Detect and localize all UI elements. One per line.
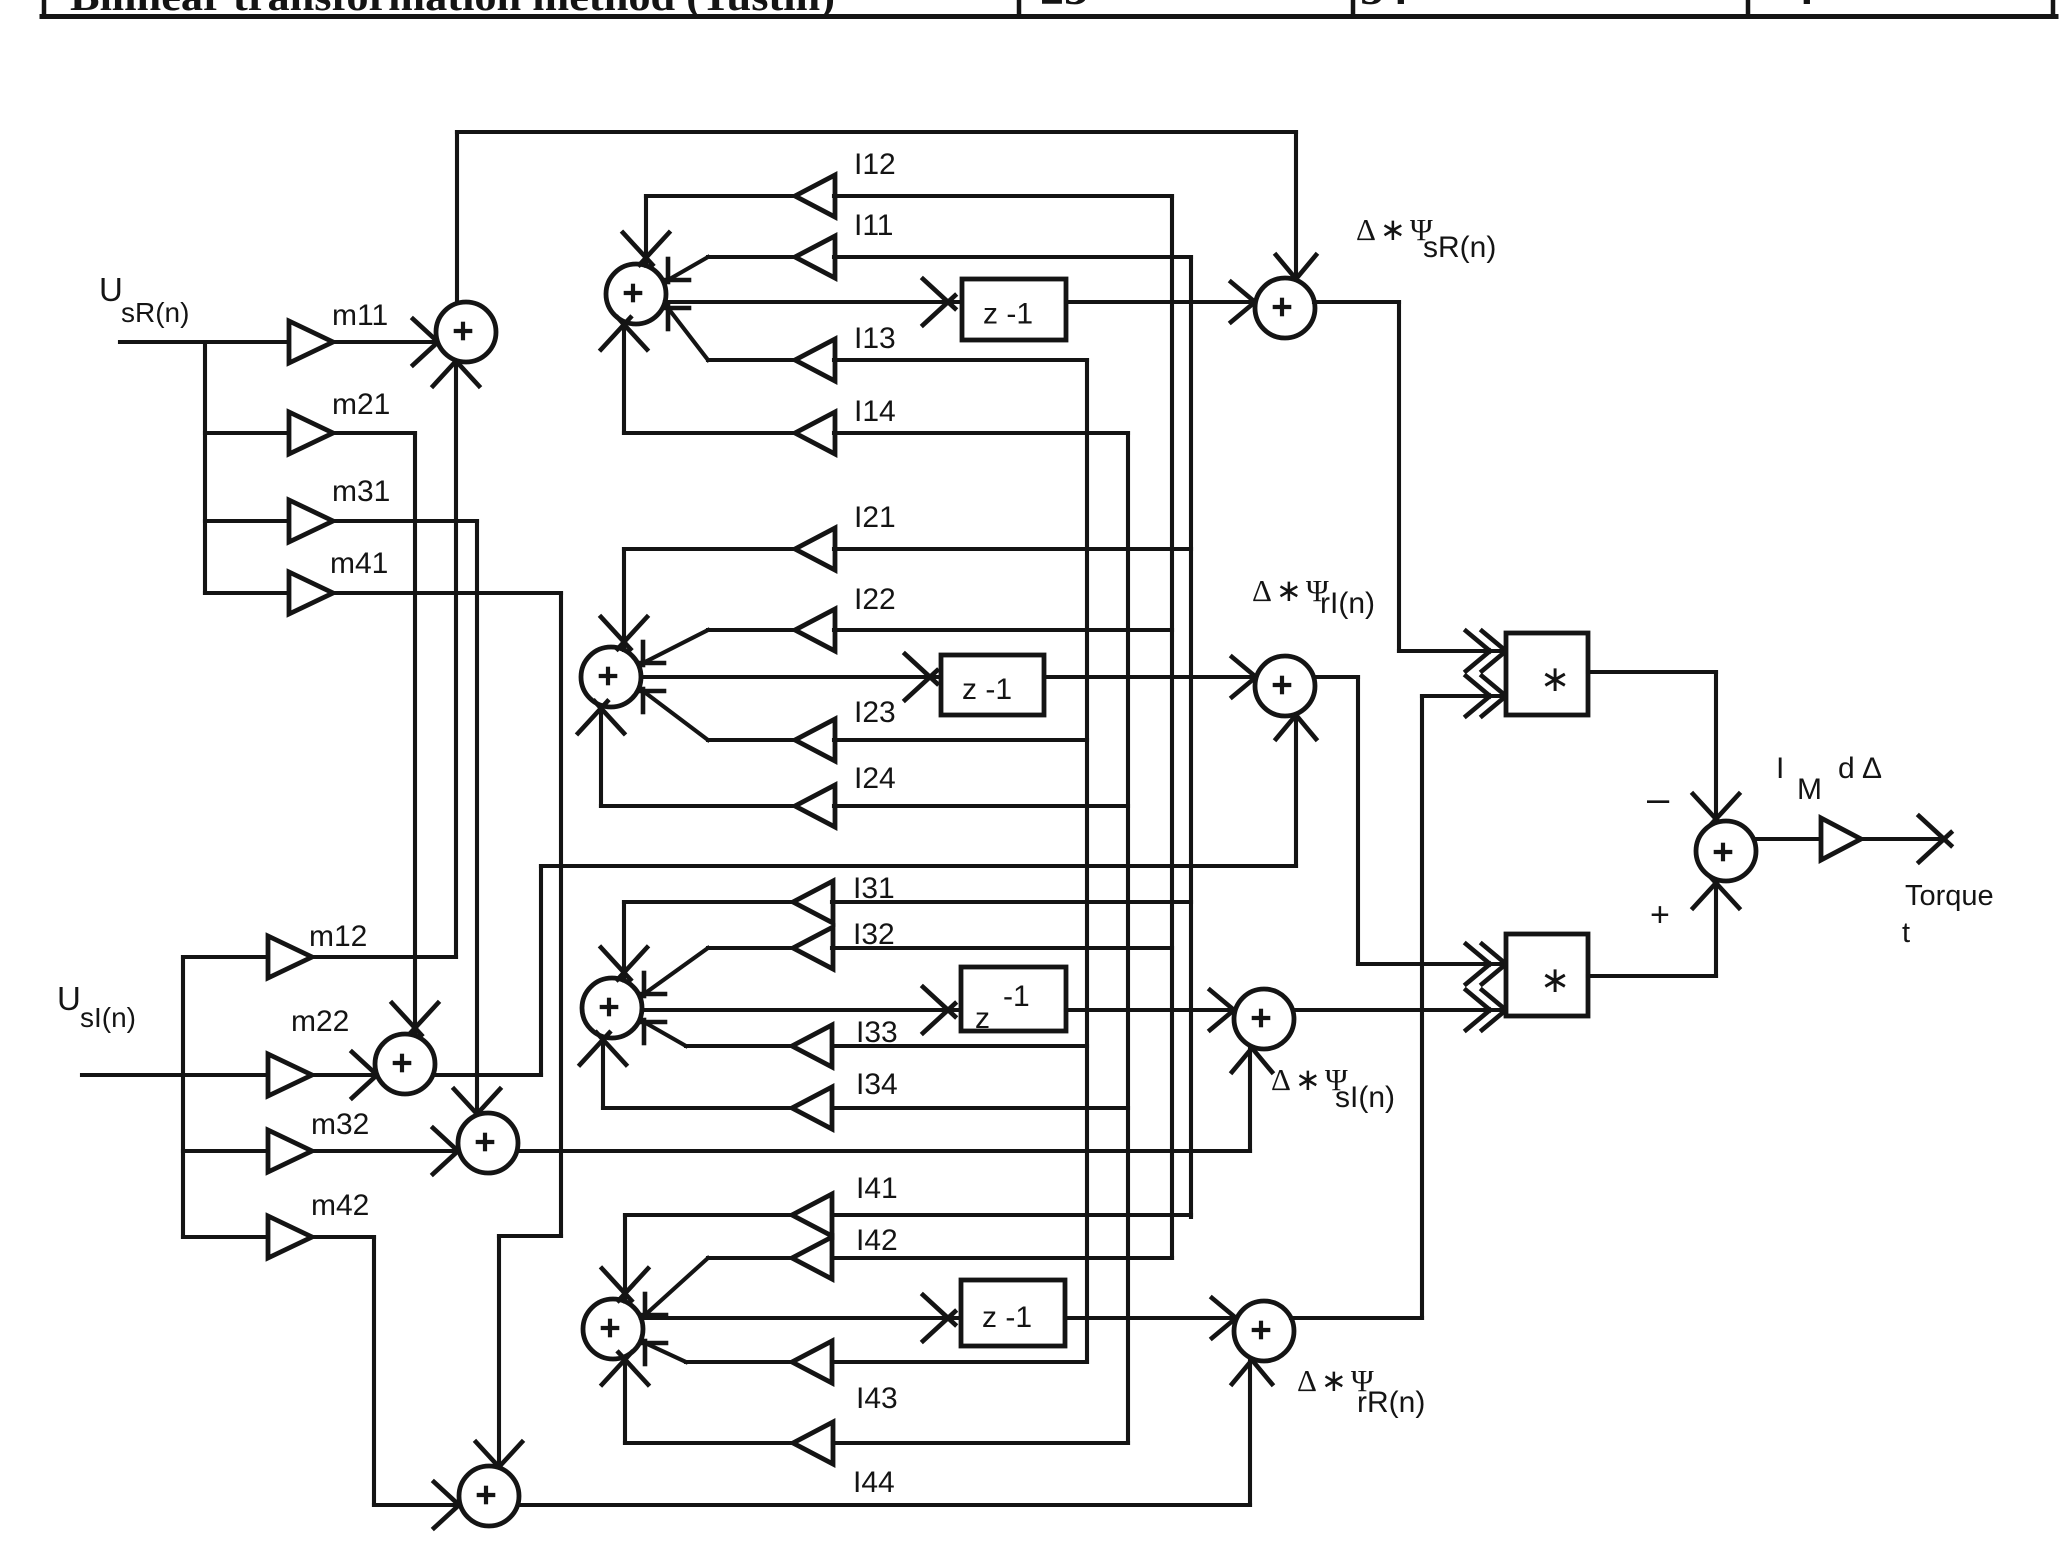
label I M d Delta [1776, 752, 1882, 806]
wire I43 to SC4 [643, 1341, 792, 1364]
wire U_sR to m41 [205, 591, 289, 595]
svg-text:m42: m42 [311, 1189, 369, 1222]
wire U_sI branch vertical [181, 957, 185, 1237]
wire Z4 output to D4 [1065, 1298, 1236, 1338]
gain I13 [795, 322, 896, 381]
svg-text:rI(n): rI(n) [1320, 587, 1375, 620]
svg-text:sR(n): sR(n) [121, 297, 189, 328]
svg-text:I12: I12 [854, 148, 896, 181]
svg-text:23: 23 [1040, 0, 1088, 15]
svg-text:I42: I42 [856, 1224, 898, 1257]
svg-text:rR(n): rR(n) [1357, 1386, 1425, 1419]
wire I44 input [833, 1441, 1128, 1445]
wire I33 to SC3 [642, 1020, 793, 1046]
table column border 2 [1351, 0, 1356, 16]
wire U_sI to m42 [183, 1235, 268, 1239]
svg-text:I41: I41 [856, 1172, 898, 1205]
gain IM dDelta [1821, 818, 1861, 860]
gain I12 [795, 148, 896, 217]
wire Z2 output to D2 [1044, 657, 1256, 697]
wire I22 to SC2 [641, 630, 795, 665]
svg-text:I11: I11 [854, 209, 893, 242]
gain m41 [289, 547, 388, 614]
wire SC2 to delay Z2 [641, 654, 941, 700]
svg-text:∗: ∗ [1540, 959, 1570, 1000]
wire Z1 output to D1 [1066, 282, 1255, 322]
gain I43 [792, 1341, 898, 1415]
wire D3 to multiplier X2 [1293, 990, 1506, 1030]
svg-text:I24: I24 [854, 762, 896, 795]
wire U_sI to m32 [183, 1149, 268, 1153]
wire I23 input [834, 738, 1087, 742]
svg-text:z -1: z -1 [962, 673, 1012, 706]
wire I41 input [832, 1213, 1191, 1217]
wire U_sR input [120, 340, 289, 344]
svg-text:z: z [975, 1002, 990, 1035]
table left border [42, 0, 47, 16]
svg-text:U: U [57, 980, 81, 1017]
wire m32 to summer S3 [312, 1128, 465, 1174]
wire S2 output to D2 [433, 715, 1316, 1075]
multiplier X1 [1506, 633, 1588, 715]
gain I32 [793, 918, 895, 969]
wire X2 to final summer [1588, 876, 1739, 976]
wire I13 to SC1 [666, 306, 795, 360]
delay Z2 [941, 655, 1044, 715]
multiplier X2 [1506, 934, 1588, 1016]
svg-text:d: d [1838, 752, 1855, 785]
label Torque t [1902, 880, 1994, 949]
wire I12 to SC1 [666, 257, 795, 282]
svg-text:m32: m32 [311, 1108, 369, 1141]
wire m42 to summer S4 [312, 1237, 466, 1528]
wire I34 input [832, 1106, 1128, 1110]
delay Z1 [962, 279, 1066, 340]
svg-text:+: + [1650, 896, 1670, 934]
wire I14 input [834, 431, 1128, 435]
wire I21 input [834, 547, 1191, 551]
delay Z3 [961, 967, 1066, 1035]
wire m12 to summer S1 [312, 354, 479, 957]
table cell text Bilinear transformation method (Tustin) [70, 0, 835, 19]
svg-text:4: 4 [1790, 0, 1814, 15]
wire m22 to summer S2 [312, 1052, 384, 1098]
gain I44 [793, 1422, 895, 1499]
table cell text 4 [1790, 0, 1814, 15]
svg-text:m31: m31 [332, 475, 390, 508]
svg-text:∗: ∗ [1540, 658, 1570, 699]
wire I24 input [834, 804, 1128, 808]
label Delta-Psi rI(n) [1252, 573, 1375, 620]
wire D4 to multiplier X1 [1291, 676, 1506, 1318]
wire SC1 to delay Z1 [665, 279, 962, 325]
gain m42 [268, 1189, 369, 1258]
label Delta-Psi sI(n) [1271, 1062, 1395, 1114]
svg-text:m22: m22 [291, 1005, 349, 1038]
wire I33 input [832, 1044, 1087, 1048]
node bus state3 [1085, 360, 1089, 1362]
gain m12 [268, 920, 367, 978]
gain I14 [795, 395, 896, 454]
wire U_sR to m31 [205, 519, 289, 523]
wire I13 input [834, 358, 1087, 362]
svg-text:Δ: Δ [1862, 752, 1882, 785]
label Delta-Psi sR(n) [1356, 212, 1496, 264]
table column border 3 [1746, 0, 1751, 16]
summer SC1 [606, 264, 666, 324]
svg-text:-1: -1 [1003, 980, 1030, 1013]
svg-text:m21: m21 [332, 388, 390, 421]
summer D3 [1234, 989, 1294, 1049]
wire I23 to SC2 [641, 689, 795, 740]
wire I32 to SC3 [642, 948, 793, 996]
wire I24 to SC2 [578, 701, 795, 806]
svg-text:z -1: z -1 [982, 1301, 1032, 1334]
summer SC4 [583, 1299, 643, 1359]
svg-text:Bilinear transformation method: Bilinear transformation method (Tustin) [70, 0, 835, 19]
summer S2 [375, 1034, 435, 1094]
summer S4 [459, 1466, 519, 1526]
wire D2 to multiplier X2 [1314, 677, 1506, 984]
wire top rail S1 to D1 [457, 132, 1316, 279]
wire SC4 to delay Z4 [641, 1295, 961, 1341]
wire I11 to SC1 [623, 196, 795, 266]
wire Z3 output to D3 [1066, 990, 1234, 1030]
wire m21 to summer S2 [333, 433, 438, 1036]
wire I14 to SC1 [601, 317, 795, 433]
wire torque output [1861, 816, 1951, 862]
summer S3 [458, 1113, 518, 1173]
gain m22 [268, 1005, 349, 1096]
label minus sign [1647, 777, 1670, 821]
wire I41 to SC4 [602, 1215, 792, 1302]
gain I22 [795, 583, 896, 651]
gain I31 [793, 872, 895, 923]
gain m11 [289, 299, 388, 363]
summer SC3 [582, 978, 642, 1038]
table bottom border [42, 14, 2056, 19]
label Delta-Psi rR(n) [1297, 1363, 1425, 1419]
gain I11 [795, 209, 893, 278]
wire X1 to final summer [1588, 672, 1739, 826]
summer D2 [1255, 656, 1315, 716]
wire U_sR to m21 [205, 431, 289, 435]
node U_sR(n) label [99, 271, 189, 328]
wire I43 input [832, 1360, 1087, 1364]
wire U_sR branch vertical [203, 342, 207, 593]
summer S1 [436, 302, 496, 362]
svg-text:m11: m11 [332, 299, 388, 332]
summer S5 [1696, 821, 1756, 881]
svg-text:I22: I22 [854, 583, 896, 616]
gain m32 [268, 1108, 369, 1172]
gain m31 [289, 475, 390, 542]
delay Z4 [961, 1280, 1065, 1346]
svg-text:sI(n): sI(n) [80, 1002, 136, 1033]
gain I42 [792, 1224, 898, 1279]
gain m21 [289, 388, 390, 454]
wire m31 to summer S3 [333, 521, 500, 1121]
svg-text:I: I [1776, 752, 1784, 785]
wire D1 to multiplier X1 [1314, 302, 1506, 671]
wire I21 to SC2 [601, 549, 795, 650]
node U_sI(n) label [57, 980, 136, 1033]
svg-text:I43: I43 [856, 1382, 898, 1415]
svg-text:I14: I14 [854, 395, 896, 428]
gain I41 [792, 1172, 898, 1236]
svg-text:54: 54 [1360, 0, 1408, 15]
svg-text:m12: m12 [309, 920, 367, 953]
summer D4 [1234, 1301, 1294, 1361]
svg-text:U: U [99, 271, 123, 308]
wire m11 to summer S1 [333, 319, 445, 365]
table cell text 54 [1360, 0, 1408, 15]
wire I22 input [834, 628, 1172, 632]
svg-text:z -1: z -1 [983, 298, 1033, 331]
wire I42 input [832, 1256, 1172, 1260]
svg-text:M: M [1797, 773, 1822, 806]
summer D1 [1255, 278, 1315, 338]
wire SC3 to delay Z3 [642, 987, 961, 1033]
gain I24 [795, 762, 896, 827]
svg-text:Torque: Torque [1905, 880, 1994, 912]
gain I34 [792, 1068, 898, 1129]
wire S3 output to D3 [518, 1048, 1272, 1151]
svg-text:I34: I34 [856, 1068, 898, 1101]
wire I32 input [832, 946, 1172, 950]
svg-text:t: t [1902, 917, 1910, 949]
svg-text:sI(n): sI(n) [1335, 1081, 1395, 1114]
svg-text:I44: I44 [853, 1466, 895, 1499]
wire I42 to SC4 [643, 1258, 792, 1317]
gain I23 [795, 696, 896, 761]
gain I33 [792, 1016, 898, 1067]
label plus sign [1650, 896, 1670, 934]
svg-text:I21: I21 [854, 501, 896, 534]
wire U_sI input [82, 1073, 268, 1077]
wire I44 to SC4 [602, 1352, 792, 1443]
table right border [2051, 0, 2056, 16]
table cell text 23 [1040, 0, 1088, 15]
gain I21 [795, 501, 896, 570]
wire summer S1 to top rail [455, 132, 459, 303]
svg-text:–: – [1647, 777, 1670, 821]
wire I11 input [834, 255, 1191, 259]
svg-text:I23: I23 [854, 696, 896, 729]
wire final summer to gain [1754, 837, 1821, 841]
svg-text:I13: I13 [854, 322, 896, 355]
node bus state2 [1170, 196, 1174, 1258]
svg-text:m41: m41 [330, 547, 388, 580]
wire m41 to summer S4 [333, 593, 561, 1474]
wire I12 input [834, 194, 1172, 198]
node bus state1 [1189, 257, 1193, 1217]
summer SC2 [581, 647, 641, 707]
wire I31 to SC3 [601, 902, 793, 981]
wire U_sI to m12 [183, 955, 268, 959]
svg-text:sR(n): sR(n) [1423, 231, 1496, 264]
wire I31 input [832, 900, 1191, 904]
wire S4 output to D4 [519, 1360, 1272, 1505]
node bus state4 [1126, 433, 1130, 1443]
table column border 1 [1017, 0, 1022, 16]
wire I34 to SC3 [580, 1033, 793, 1108]
